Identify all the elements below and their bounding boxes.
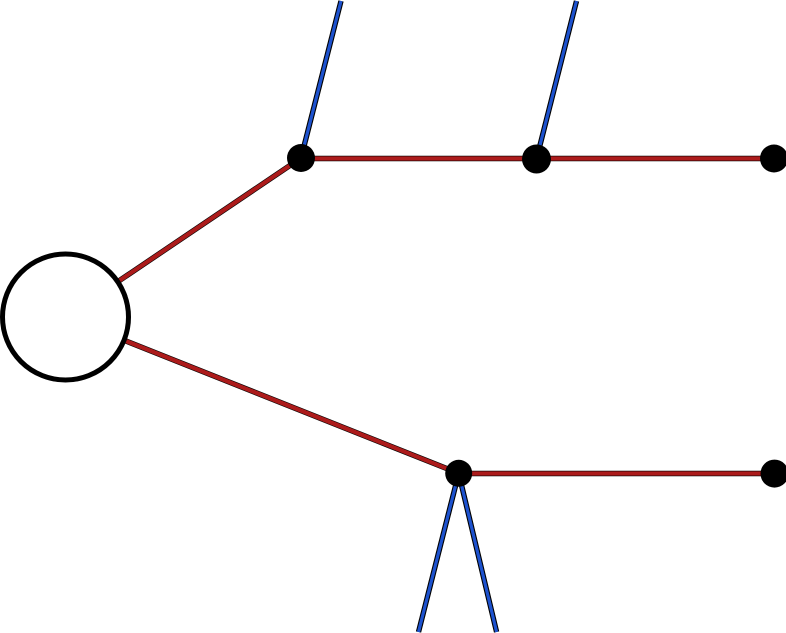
wire red edge node A to node C (outline) <box>301 156 774 161</box>
hub circle <box>3 254 129 380</box>
wire red edge circle to node D (outline) <box>66 317 459 473</box>
wire red edge node A to node C <box>301 156 774 160</box>
wire red edge node D to node E <box>459 471 774 475</box>
wire blue edge top to node A (outline) <box>301 1 341 158</box>
wire blue edge top to node A <box>301 1 341 158</box>
wire red edge circle to node A (outline) <box>66 158 302 317</box>
node E <box>761 460 786 488</box>
node D <box>445 460 472 487</box>
wire blue edge node D to bottom left <box>419 473 459 632</box>
wire red edge node D to node E (outline) <box>459 471 774 476</box>
node C <box>760 145 786 173</box>
wire blue edge top to node B <box>537 1 577 159</box>
node A <box>287 144 315 172</box>
wire blue edge node D to bottom right <box>459 473 497 632</box>
wire blue edge node D to bottom left (outline) <box>419 473 459 632</box>
wire blue edge top to node B (outline) <box>537 1 577 159</box>
wire blue edge node D to bottom right (outline) <box>459 473 497 632</box>
wire red edge circle to node D <box>66 317 459 473</box>
wire red edge circle to node A <box>66 158 302 317</box>
node B <box>522 145 551 174</box>
